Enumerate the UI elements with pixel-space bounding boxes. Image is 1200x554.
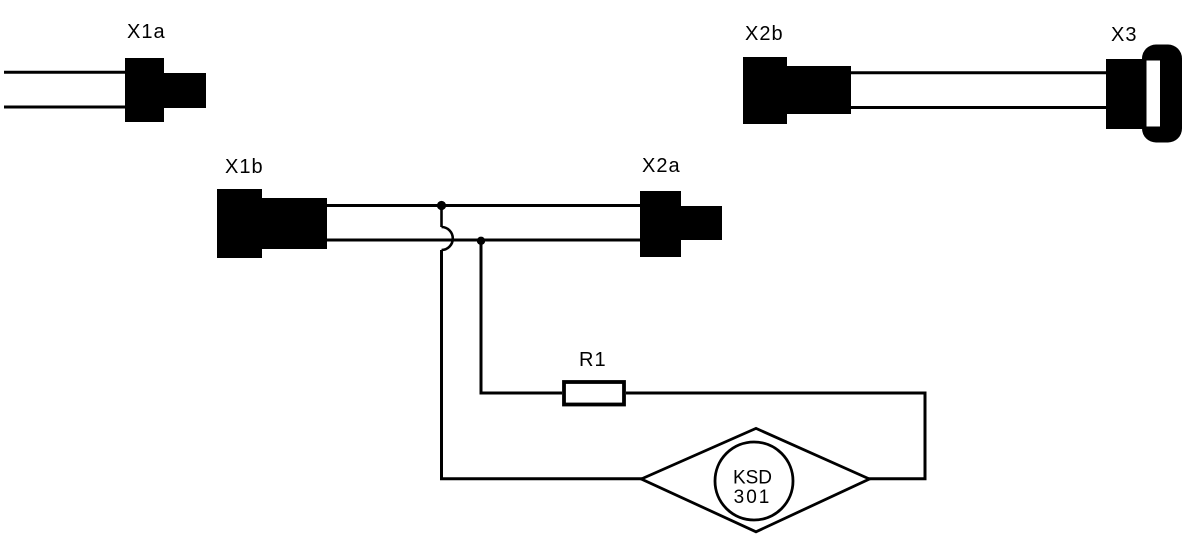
connector X2b (743, 57, 851, 124)
svg-text:KSD: KSD (733, 468, 772, 489)
wire X1b to X2a bottom (326, 239, 642, 242)
wire from bottom junction down to R1 (481, 241, 562, 393)
svg-text:301: 301 (734, 487, 772, 508)
wire X1a pin 1 (4, 71, 126, 74)
wire X1a pin 2 (4, 106, 126, 109)
node junction dot on bottom wire (477, 237, 485, 245)
wire X2b to X3 top (849, 71, 1108, 74)
thermostat KSD301 diamond (641, 428, 869, 531)
svg-text:X1b: X1b (225, 156, 264, 178)
node junction dot on top wire (437, 201, 446, 210)
resistor R1 (564, 382, 624, 405)
wire left vertical down and bottom horizontal to KSD left vertex (442, 250, 643, 479)
svg-text:X2a: X2a (642, 155, 681, 177)
wire X2b to X3 bottom (849, 106, 1108, 109)
wire from top junction down to hop (440, 206, 443, 228)
connector X1a (125, 58, 206, 122)
wire hop over bottom wire (442, 227, 453, 250)
connector X3 (1106, 45, 1182, 143)
connector X2a (640, 191, 722, 257)
svg-text:X3: X3 (1111, 24, 1137, 46)
svg-text:R1: R1 (579, 349, 607, 371)
svg-text:X1a: X1a (127, 21, 166, 43)
connector X1b (217, 189, 327, 258)
wire from R1 right to right vertical down to KSD right vertex (626, 393, 925, 479)
label KSD 301 (733, 468, 772, 509)
svg-text:X2b: X2b (745, 23, 784, 45)
wire X1b to X2a top (326, 204, 642, 207)
thermostat KSD301 circle (715, 442, 793, 520)
